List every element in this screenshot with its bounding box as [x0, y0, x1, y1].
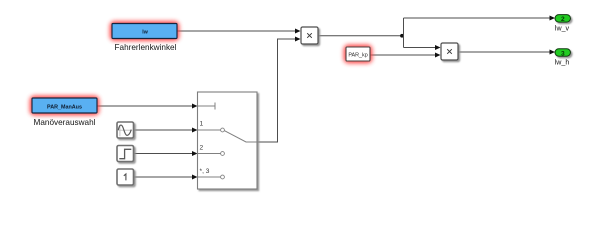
wire: product U2 output to outport lw_h — [458, 50, 555, 55]
wire: step source to switch port 2 — [134, 151, 198, 156]
constant block PAR_kp red highlight glow — [344, 45, 373, 64]
svg-text:lw_v: lw_v — [555, 25, 570, 33]
svg-text:2: 2 — [561, 16, 565, 23]
constant value 1 — [124, 174, 126, 180]
wire: junction lower branch to product U2 upper input — [404, 45, 441, 50]
outport lw_v body — [555, 15, 571, 23]
inport block lw (Fahrerlenkwinkel) red highlight glow — [110, 21, 180, 41]
svg-text:1: 1 — [200, 121, 204, 128]
constant block PAR_kp body — [346, 47, 370, 61]
svg-text:lw: lw — [142, 30, 148, 36]
inport block lw body — [112, 24, 177, 39]
sine icon curve — [118, 125, 131, 135]
svg-text:2: 2 — [200, 145, 204, 152]
node junction dot — [400, 34, 404, 38]
wire: PAR_kp to product U2 lower input — [370, 53, 441, 58]
svg-text:Fahrerlenkwinkel: Fahrerlenkwinkel — [115, 43, 177, 52]
wire: junction top branch to outport lw_v — [404, 16, 556, 21]
switch selector diagonal — [225, 131, 258, 142]
product block U2 — [441, 43, 458, 60]
switch control port symbol — [198, 103, 215, 110]
outport lw_h body — [555, 49, 571, 57]
wire: sine source to switch port 1 — [134, 128, 198, 133]
source block step — [117, 146, 134, 162]
sine icon axes — [118, 125, 132, 136]
wire: junction vertical branch — [403, 18, 405, 48]
switch port 3 stem and contact — [198, 176, 221, 178]
svg-text:PAR_kp: PAR_kp — [348, 53, 367, 59]
switch port 2 stem and contact — [198, 153, 221, 155]
wire: product U1 output to junction — [318, 35, 404, 37]
source block sine wave — [117, 122, 134, 138]
svg-text:*, 3: *, 3 — [200, 168, 210, 175]
wire: PAR_ManAus to switch control port — [97, 104, 198, 109]
product block U1 — [301, 27, 318, 44]
svg-text:lw_h: lw_h — [555, 59, 570, 67]
product U2 multiply sign — [447, 49, 452, 54]
source block constant 1 — [117, 169, 134, 185]
multiport switch block body — [198, 92, 258, 189]
wire lw: inport Fahrerlenkwinkel to product U1 upper input — [177, 29, 301, 34]
product U1 multiply sign — [307, 33, 312, 38]
step icon — [119, 149, 131, 158]
wire: constant source to switch port 3 — [134, 175, 198, 180]
inport block PAR_ManAus body — [32, 98, 97, 113]
svg-text:3: 3 — [561, 50, 565, 57]
svg-text:PAR_ManAus: PAR_ManAus — [47, 105, 82, 111]
wire: switch output up to product U1 lower input — [257, 37, 301, 143]
inport block PAR_ManAus (Manoverauswahl) red highlight glow — [30, 96, 100, 116]
switch port 1 stem and contact — [198, 129, 221, 131]
svg-text:Manöverauswahl: Manöverauswahl — [34, 118, 96, 127]
